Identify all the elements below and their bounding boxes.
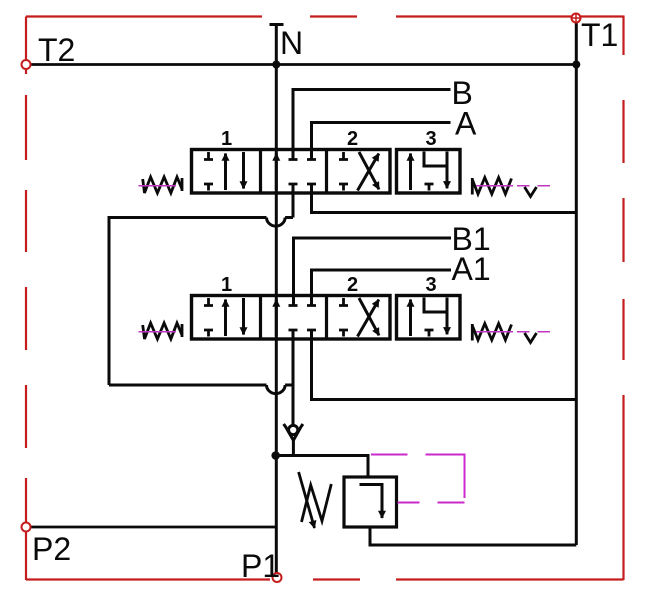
valve V1 right spring [473, 178, 512, 195]
wire port A [312, 123, 451, 160]
valve V1 box3 body [397, 150, 461, 194]
wire hop arc 2 [267, 385, 286, 394]
valve V2 center up arrow on N [275, 300, 278, 337]
wire relief valve feed [276, 456, 368, 478]
svg-text:1: 1 [221, 274, 232, 296]
valve V2 right spring [473, 324, 512, 341]
detent v valve V1 right [525, 187, 537, 197]
relief valve RV1 body [344, 477, 397, 527]
detent v valve V2 right [525, 333, 537, 343]
node N top cap [270, 23, 284, 26]
valve V1 divider box1/center [259, 150, 262, 194]
valve V1 box1 up arrow [224, 154, 227, 191]
relief valve RV1 adjustment arrow [299, 472, 315, 528]
port circle T1 with cross [572, 14, 581, 23]
valve V2 left spring end bar [181, 324, 184, 337]
svg-text:T2: T2 [38, 32, 75, 68]
valve V1 box3 float passage [424, 152, 447, 182]
wire port B [293, 90, 451, 160]
valve V1 box3 blocked port bottom [425, 184, 434, 191]
relief valve RV1 adjustable spring [302, 484, 332, 522]
valve V1 divider center/box2 [325, 150, 328, 194]
svg-text:N: N [280, 25, 303, 61]
svg-text:T1: T1 [581, 17, 618, 53]
relief valve RV1 internal flow arrow [360, 485, 383, 519]
svg-text:A1: A1 [452, 251, 491, 287]
enclosure border right (red dashed) [622, 16, 624, 581]
valve V1 body main block [192, 150, 391, 194]
wire port P2 [30, 526, 275, 529]
valve V1 box2 crossed arrow up [358, 154, 379, 191]
pilot line relief (magenta dashed) [371, 455, 465, 503]
enclosure border bottom (red dashed) [26, 578, 624, 580]
valve V2 box1 blocked port top [204, 298, 213, 306]
valve V2 box1 blocked port bottom [204, 330, 213, 337]
wire valve2 tank return to T1 [312, 330, 577, 400]
valve V1 box1 down arrow [242, 152, 245, 189]
svg-text:2: 2 [347, 274, 358, 296]
valve V1 box1 blocked port bottom [204, 184, 213, 191]
pilot line valve V2 right (magenta dashed) [476, 331, 550, 333]
valve V1 box2 blocked port top [339, 152, 348, 160]
wire valve2 bypass to check valve [292, 330, 295, 426]
svg-text:A: A [455, 106, 477, 142]
wire check valve outlet [292, 440, 295, 456]
junction P1 gallery [271, 451, 280, 460]
wire valve1 bypass drop [292, 184, 295, 218]
valve V2 box2 blocked port bottom [339, 330, 348, 337]
valve V2 center blocked bars top [289, 304, 317, 307]
wire bypass line 1 with hop over N [109, 218, 293, 386]
port circle P2 [22, 523, 31, 532]
svg-text:3: 3 [425, 274, 436, 296]
valve V1 box3 up arrow [409, 154, 412, 191]
pilot line valve V2 left (magenta) [139, 331, 177, 333]
enclosure border top (red dashed) [26, 15, 624, 17]
wire valve1 tank return to T1 [312, 184, 577, 213]
valve V2 box1 down arrow [242, 298, 245, 335]
valve V1 box2 crossed arrow down [359, 152, 379, 189]
valve V2 divider box1/center [259, 296, 262, 340]
valve V1 center blocked bars top [289, 158, 317, 161]
svg-text:P2: P2 [32, 531, 71, 567]
svg-text:3: 3 [425, 128, 436, 150]
valve V1 left spring end bar [181, 178, 184, 191]
valve V1 left spring [143, 177, 182, 193]
wire port A1 [312, 270, 452, 306]
svg-text:P1: P1 [241, 548, 280, 584]
enclosure border left (red dashed) [25, 17, 27, 581]
check valve CV1 [284, 424, 303, 440]
valve V2 box3 body [397, 296, 461, 340]
valve V2 box2 crossed arrow down [359, 298, 379, 335]
wire T1 vertical [575, 22, 578, 546]
pilot line valve V1 right (magenta dashed) [476, 185, 550, 187]
pilot line valve V1 left (magenta) [139, 185, 177, 187]
valve V2 box2 crossed arrow up [358, 300, 379, 337]
wire N vertical (pressure gallery to P1) [275, 25, 278, 574]
svg-text:1: 1 [221, 128, 232, 150]
valve V2 body main block [192, 296, 391, 340]
valve V2 box1 up arrow [224, 300, 227, 337]
wire hop arc 1 [267, 218, 286, 227]
valve V1 center up arrow on N [275, 154, 278, 191]
junction N on main line [272, 61, 280, 69]
valve V2 divider center/box2 [325, 296, 328, 340]
valve V1 box2 blocked port bottom [339, 184, 348, 191]
wire relief valve outlet to tank [370, 527, 576, 545]
valve V2 box3 float passage arrowhead [446, 312, 449, 334]
valve V2 center blocked bars bottom [289, 329, 317, 332]
port circle T2 [22, 60, 31, 69]
port circle P1 [273, 573, 282, 582]
wire port B1 [294, 238, 452, 306]
valve V2 box3 up arrow [409, 300, 412, 337]
valve V2 right spring end bar [471, 324, 474, 341]
valve V2 box2 blocked port top [339, 298, 348, 306]
valve V1 box1 blocked port top [204, 152, 213, 160]
valve V1 box3 float passage arrowhead [446, 166, 449, 188]
wire main tank line T2-N-T1 [30, 63, 576, 66]
valve V2 box3 float passage [424, 298, 447, 328]
valve V1 center blocked bars bottom [289, 183, 317, 186]
valve V2 left spring [143, 323, 182, 339]
valve V1 right spring end bar [471, 178, 474, 195]
wire bypass line 2 with hop over N [109, 384, 293, 387]
valve V2 box3 blocked port bottom [425, 330, 434, 337]
junction T1 on main line [572, 61, 580, 69]
svg-text:2: 2 [347, 128, 358, 150]
